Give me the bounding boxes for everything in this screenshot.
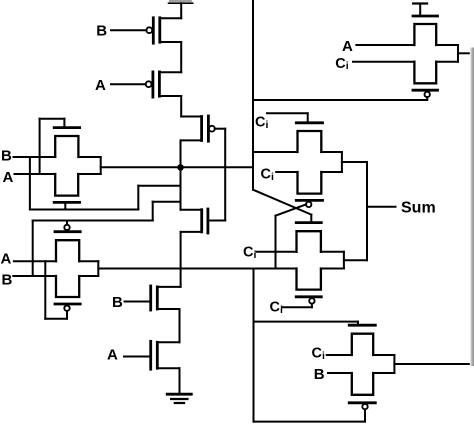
- svg-text:A: A: [3, 169, 14, 186]
- svg-text:Ci: Ci: [255, 115, 268, 131]
- svg-text:B: B: [1, 148, 12, 165]
- svg-text:Ci: Ci: [335, 56, 348, 72]
- svg-text:A: A: [1, 251, 12, 268]
- svg-text:Ci: Ci: [270, 300, 283, 316]
- svg-text:Ci: Ci: [312, 346, 325, 362]
- svg-text:B: B: [112, 294, 123, 311]
- svg-text:A: A: [107, 347, 118, 364]
- svg-text:B: B: [2, 272, 13, 289]
- svg-text:B: B: [314, 366, 325, 383]
- svg-text:B: B: [96, 23, 107, 40]
- svg-text:A: A: [342, 38, 353, 55]
- svg-text:Ci: Ci: [243, 245, 256, 261]
- svg-text:Ci: Ci: [261, 167, 274, 183]
- svg-text:A: A: [95, 77, 106, 94]
- svg-text:Sum: Sum: [401, 199, 436, 216]
